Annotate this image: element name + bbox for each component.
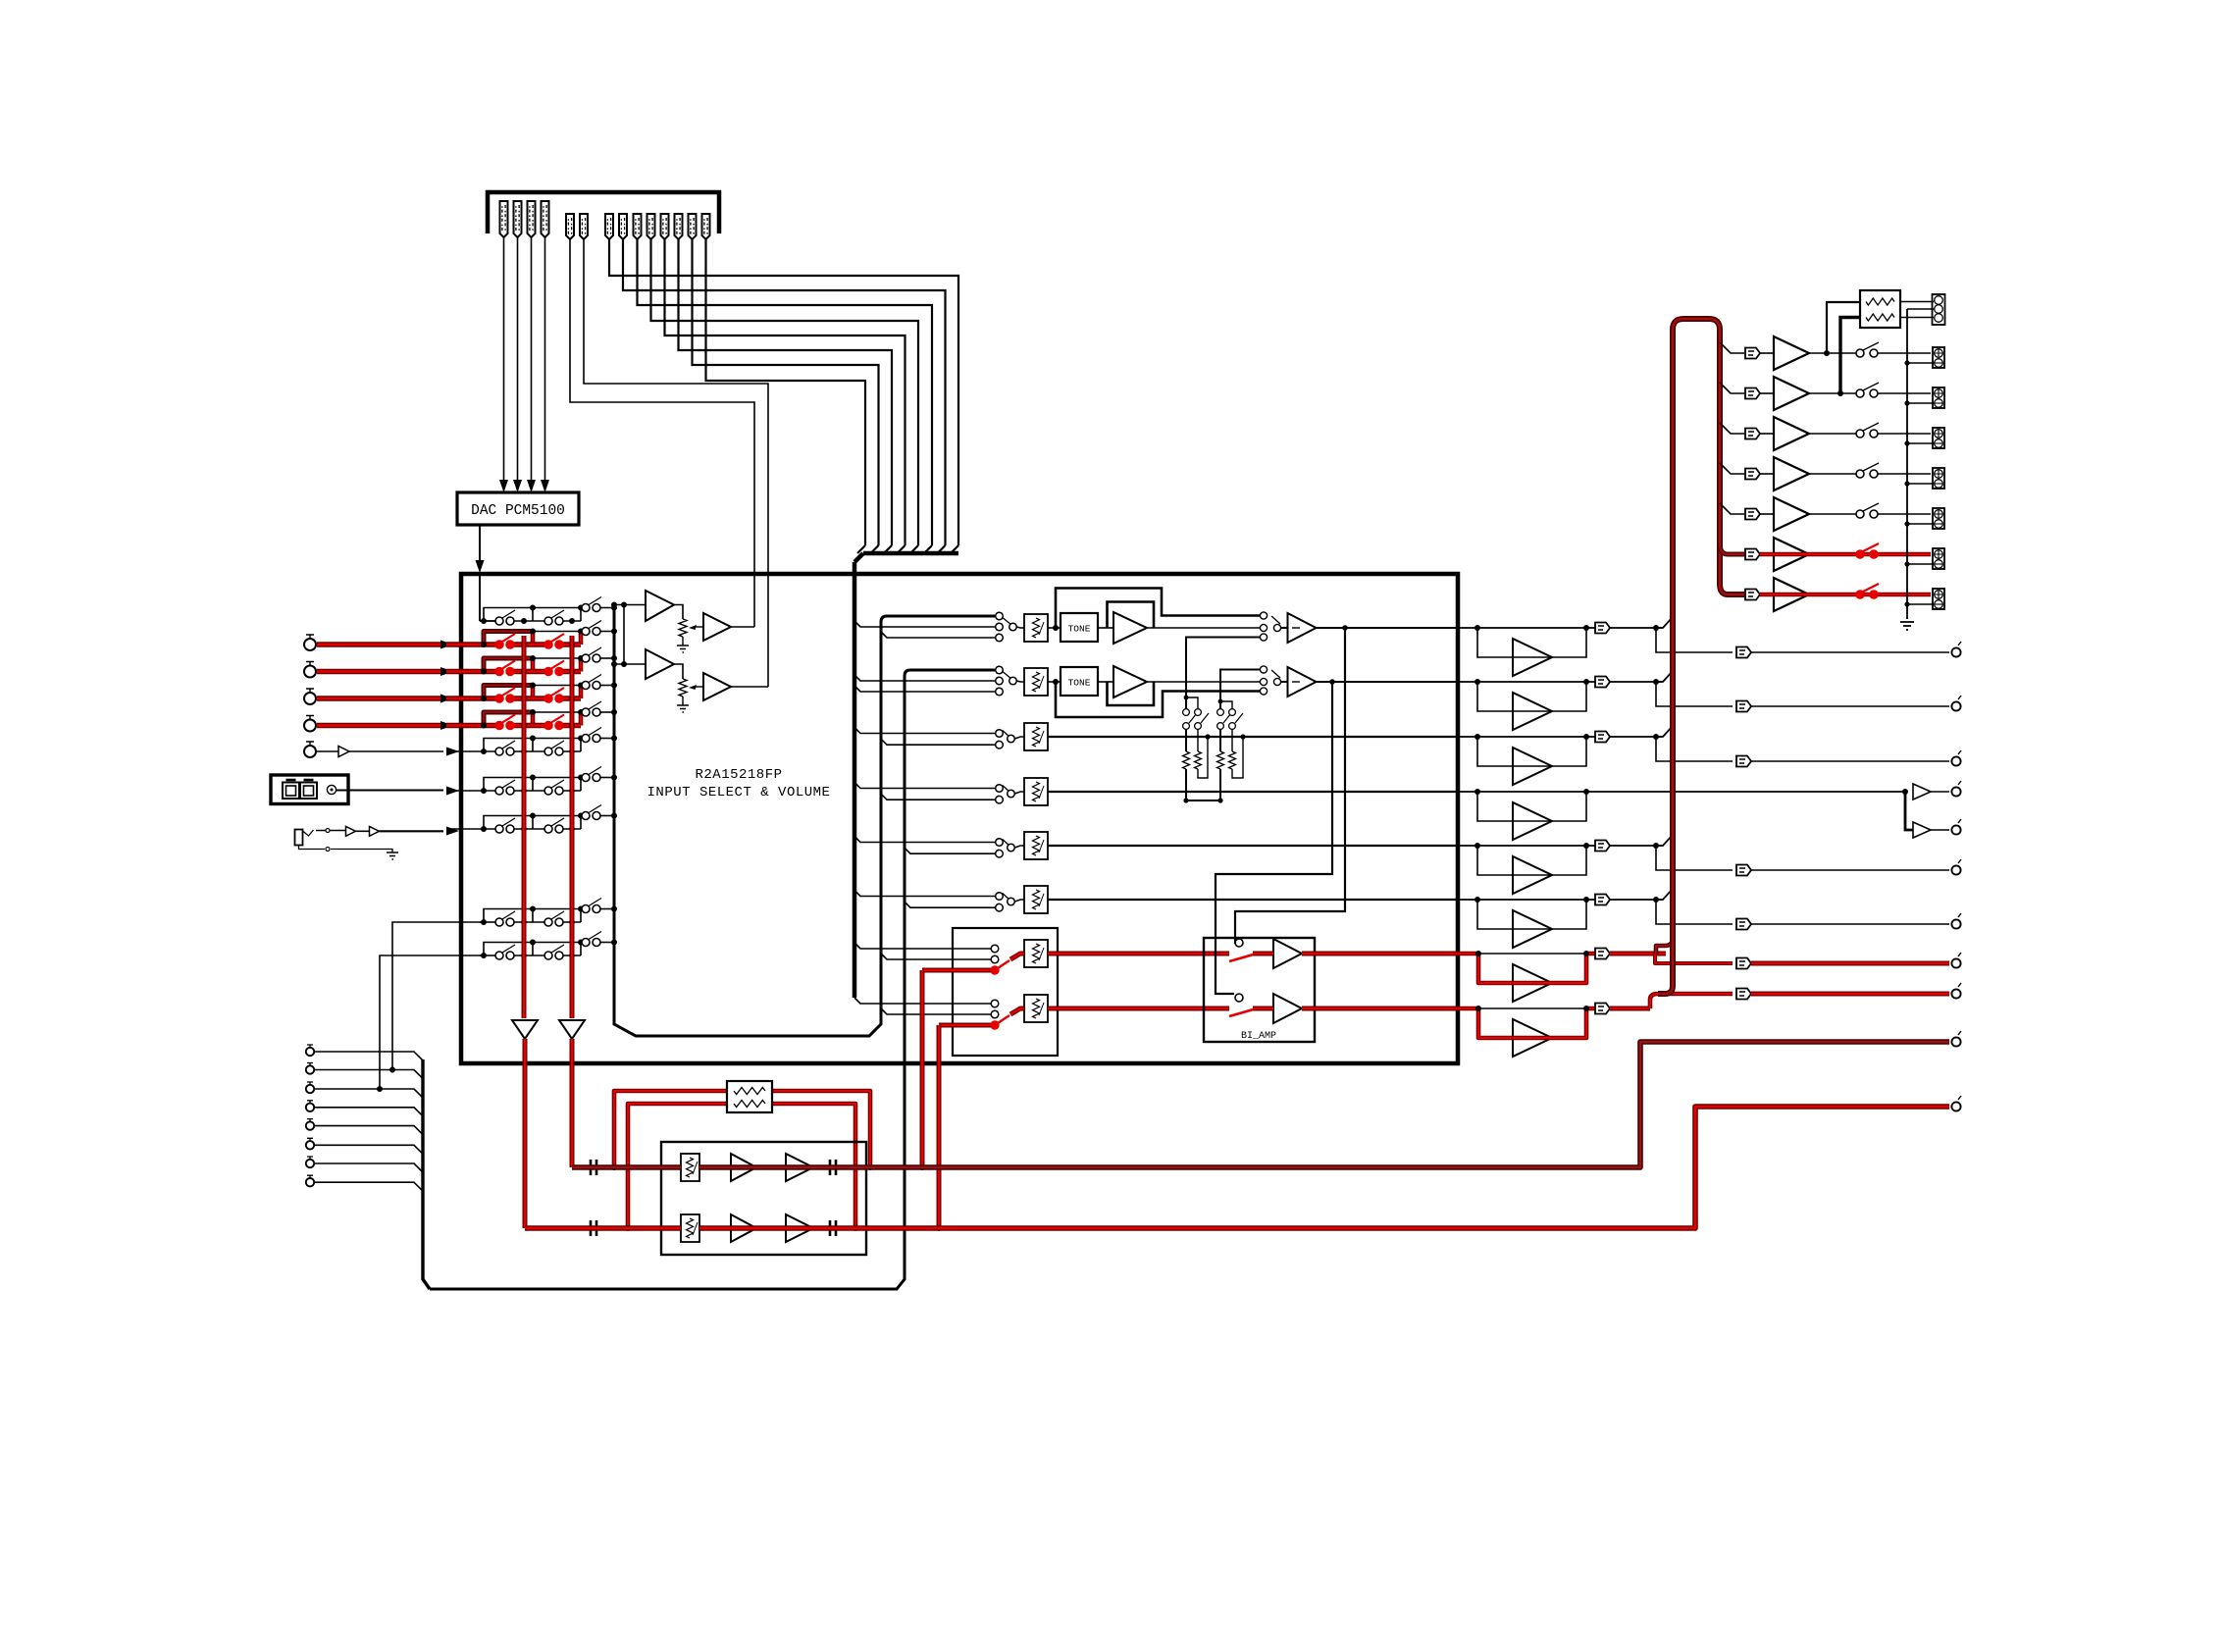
wire SBR preout [1650,994,1733,1008]
attenuator box rec A [1024,940,1048,967]
lever biamp A [1229,954,1257,961]
wire row 940 seg2 [514,921,544,923]
wire row 806 stair [484,778,533,792]
switch row 940 col2 [544,911,564,926]
wire DAC signal 4 [544,237,546,480]
lever vol 3 [1003,731,1009,737]
coupling marks right y1190 [830,1160,836,1175]
contact vol 6 common [1008,898,1015,905]
wire row 657 seg3 [561,642,581,646]
wire row 766 upper [533,738,586,740]
wire row 712 upper2 [600,685,614,687]
amp biamp UA [1273,939,1302,968]
wire row 712 drop2 [579,686,584,699]
bus vertical aux [614,604,995,1036]
connector pin bottom 8 [306,1175,314,1186]
wire post row 751 main [1458,736,1662,738]
wire bottom pin 4 [314,1108,423,1116]
wire gnd stub 4 [1907,483,1934,485]
wire vol feed lower 2 [854,686,995,692]
wire input red 3 [317,696,443,700]
lever rec B [998,1015,1009,1023]
wire phones gnd [299,846,393,853]
bus merge diagonal [854,553,863,562]
wire amp1 out [1809,352,1856,354]
junction row 845 bus1 [521,826,527,832]
wire DAC signal 3 [531,237,533,480]
wire row 806 seg2 [514,790,544,792]
coupling marks right y1252 [830,1220,836,1236]
amp tone U5 [1113,612,1147,644]
contact biamp A [1235,939,1243,947]
wire CH7 route [693,239,879,545]
terminal spk sys [1933,294,1945,325]
wire vol feed lower 1 [881,632,995,638]
wire row 684.5 stair [484,658,533,672]
tag red 1028 [1595,1004,1610,1014]
lever vol 1 [1003,618,1010,625]
resistor RL2 [1866,314,1894,321]
switch row 845 col1 [495,818,515,833]
output jack 917 [1951,913,1961,929]
amp2 feedback loop [1108,682,1155,705]
wire tape row B [377,955,484,1092]
svg-text:TONE: TONE [1068,678,1091,689]
wire gnd stub 3 [1907,442,1934,444]
wire loop top [614,1091,870,1167]
wire vol feed upper 6 [854,891,995,897]
junction row 845 c [530,813,584,819]
svg-text:INPUT SELECT & VOLUME: INPUT SELECT & VOLUME [647,785,831,800]
wire opamp1 out [674,605,683,620]
lever vol 4 [1003,786,1009,792]
junction row 739.5 bus2 [569,723,575,729]
wire row 657 stair [484,632,533,645]
contact biamp B [1235,994,1243,1002]
wire amp4 in [1760,473,1774,475]
wire row 766 stair [484,739,533,752]
junction loop 1 [611,1164,617,1170]
wire bundle join 751 [1656,727,1672,737]
wire gnd stub 5 [1907,523,1934,525]
input jack RCA 1 [304,635,316,650]
wire tone amp link 1 [1098,627,1113,629]
arrowhead aux [446,748,459,756]
junction post 862 b [1583,843,1589,849]
ground phones [387,852,398,859]
junction row 633 bus1 [521,618,527,624]
contact vol 3 common [1008,735,1015,743]
wire bottom pin 3 [314,1089,423,1098]
op-amp U3A [646,591,674,621]
output jack 862 [1951,859,1961,875]
connector pin bottom 2 [306,1063,314,1074]
arrowhead DAC 4 [541,480,549,492]
wire row 739.5 seg3 [561,723,581,728]
wire row 633 seg2 [514,620,544,622]
wire RL in2 [1840,318,1860,394]
amp tone U6 [1113,666,1147,697]
wire post row 807 main [1458,791,1905,793]
wire bottom pin 7 [314,1163,423,1172]
wire tone link 2 [1048,681,1061,683]
wire CH2 route [623,239,946,545]
wire aux input [317,750,443,752]
wire row 940 stair [484,909,533,923]
tag SBL preout [1736,958,1751,969]
tag preout 751 [1736,756,1751,767]
junction row 739.5 c [530,709,584,715]
phones switch hook [303,830,314,836]
wire row 633 seg1 [480,620,495,622]
wire preout 751 b [1751,760,1949,762]
label INPUT SELECT VOLUME [647,785,831,800]
junction row 940 bus3 [611,906,617,912]
connector flag EX_DAC_1 [500,201,508,237]
wire opamp3 input [614,663,646,665]
contact rec B red [991,1021,999,1029]
wire row 739.5 upper2 [600,711,614,713]
wire row 940 upper [533,908,586,910]
switch row 940 col3 [582,899,601,913]
wire row 684.5 upper [533,657,586,659]
junction hp [1902,789,1908,795]
wire preout 917 b [1751,923,1949,925]
wire amp5 stub [1720,503,1744,514]
wire amp3 in [1760,433,1774,435]
wire preout 917 [1656,900,1733,924]
wire row 739.5 upper [533,711,586,713]
connector flag CH9 [689,214,697,239]
pot arrow 2 [689,685,703,690]
tag preout 862 [1736,865,1751,876]
switch row 845 col3 [582,805,601,820]
junction row 940 a [481,919,487,925]
op-amp U4A [646,649,674,679]
arrowhead DAC 2 [513,480,522,492]
contact vol 1 common [1009,623,1017,631]
wire row 712 drop [531,686,536,699]
wire rec feed lower B [881,1008,991,1014]
switch row 766 col3 [582,728,601,743]
junction row 712 c [530,683,584,689]
wire row 633 stair [484,608,533,622]
wire bottom pin 8 [314,1182,423,1191]
wire preout 862 [1656,846,1733,870]
wire DAC signal 1 [503,237,505,480]
wire row 712 seg1 [446,696,495,700]
bus speaker ground [1906,309,1908,619]
switch row 657 col2 [544,634,564,648]
contact vol 2 mid [996,677,1004,685]
junction loop 2 [625,1225,631,1231]
tag row 640 [1595,623,1610,634]
arrowhead input 2 [440,667,453,676]
junction row 974 bus3 [611,940,617,946]
junction row 940 bus2 [569,919,575,925]
wire vol common 5 [1015,846,1025,848]
wire opamp1 input [614,604,646,606]
switch row 657 col1 [495,634,515,648]
wire hp R out [1931,829,1949,831]
connector flag EX_DAC_4 [542,201,549,237]
wire amp2 out [1809,392,1856,394]
junction bypass 2 [1053,679,1059,685]
junction row 712 bus3 [611,683,617,689]
junction row 974 bus1 [521,953,527,958]
wire row 633 drop2 [580,608,582,622]
terminal spk 7 [1933,589,1944,609]
wire vol common 6 [1015,900,1025,902]
amp rec1 dark [731,1154,756,1181]
attenuator box rec B [1024,995,1048,1022]
wire CH2 bus join [938,545,946,553]
wire CH5 bus join [898,545,906,553]
phones contact [326,829,330,833]
attenuator box rec line dark [681,1154,699,1181]
wire rec tap B [936,1025,942,1231]
terminal spk 5 [1933,508,1944,529]
amp1 feedback loop [1108,602,1155,629]
pot R vol1 [679,619,687,645]
resistor box RL [1860,290,1900,328]
wire vol out 5 [1048,845,1458,847]
attenuator box vol 2 [1024,668,1048,696]
junction row 806 bus2 [569,788,575,794]
wire rec feed upper A [854,943,991,949]
amp post U8 [1288,667,1317,697]
connector pin bottom 5 [306,1119,314,1130]
wire CH4 bus join [910,545,918,553]
output jack SBL [1951,953,1961,968]
contact phones gnd [326,848,330,852]
wire vol out 3 [1048,736,1458,738]
amp bypass red 1028 [1513,1019,1552,1057]
wire vol feed lower 6 [905,902,995,907]
wire amp1 stub [1720,342,1744,353]
arrowhead input 3 [440,695,453,703]
switch row 739.5 col1 [495,715,515,730]
tag amp7 [1745,590,1760,600]
bus bottom horizontal [430,670,995,1289]
output jack 695 [1951,696,1961,711]
wire row 739.5 seg1 [446,723,495,728]
wire amp1 term [1878,352,1931,354]
wire RL in1 [1827,302,1860,353]
svg-text:R2A15218FP: R2A15218FP [695,767,782,783]
wire red dip 972 [1458,954,1595,983]
amp U15 [1774,497,1809,531]
junction row 806 a [481,788,487,794]
optical display segments [283,780,317,799]
wire row 766 seg3 [561,750,581,752]
wire SBR preout2 [1751,992,1949,997]
connector pin bottom 7 [306,1157,314,1167]
wire AIN1R [584,239,768,687]
tag amp5 [1745,509,1760,520]
wire row 766 seg2 [514,750,544,752]
wire gnd stub 6 [1907,563,1934,565]
wire row 684.5 upper2 [600,657,614,659]
wire amp1 in [1760,352,1774,354]
wire biamp feed A [1235,625,1348,944]
wire amp2 term [1878,392,1931,394]
wire amp3 stub [1720,423,1744,434]
bypass straight red 1028 [1478,1007,1586,1009]
wire SBL preout [1655,954,1733,963]
switch row 766 col2 [544,741,564,755]
junction rec lines [611,1164,631,1231]
input jack RCA 4 [304,716,316,732]
junction row 940 c [530,906,584,912]
svg-text:TONE: TONE [1068,624,1091,635]
wire amp4 out [1809,473,1856,475]
BI_AMP box [1204,938,1315,1042]
wire vol common 4 [1015,792,1025,794]
label TONE 1 [1068,624,1091,635]
wire biamp out A [1253,952,1458,956]
wire fb bottom tie [1183,798,1222,802]
amp bypass row 917 [1513,910,1552,948]
arrowhead phones [446,827,459,836]
label BI_AMP [1241,1031,1276,1042]
wire CH1 bus join [951,545,958,553]
attenuator box vol 4 [1024,778,1048,805]
switch row 712 col3 [582,675,601,690]
contact rec A upper [991,945,999,953]
wire CH1 route [609,239,958,545]
wire row 974 seg3 [561,955,581,956]
wire row 657 drop [531,632,536,645]
wire preout 751 [1656,737,1733,761]
wire row 940 upper2 [600,908,614,910]
switch row 974 col2 [544,945,564,959]
junction post 807 a [1475,789,1480,795]
switch row 633 col3 [582,597,601,612]
attenuator box vol 3 [1024,723,1048,750]
wire row 633 upper2 [600,607,614,609]
amp U12 [1774,377,1809,410]
wire rec feed upper B [854,998,991,1004]
junction row 633 c [530,605,584,611]
wire amp3 out [1809,433,1856,435]
wire rec tap A [919,970,925,1170]
wire row 806 upper [533,777,586,779]
wire REC line bright [525,1107,1949,1228]
wire amp5 in [1760,513,1774,515]
lever biamp B [1229,1008,1257,1016]
amp U17 [1774,578,1809,611]
switch row 684.5 col3 [582,647,601,662]
input jack RCA 3 [304,689,316,704]
wire row 845 upper [533,815,586,817]
wire amp2 stub [1720,383,1744,393]
connector flag EX_DAC_3 [528,201,536,237]
output jack 640 [1951,642,1961,657]
tag amp6 [1745,549,1760,560]
switch spk 6 [1856,543,1879,558]
contact vol 2 upper [996,666,1004,674]
switch row 684.5 col1 [495,661,515,676]
tag amp3 [1745,429,1760,439]
wire SBL leg jog [1656,938,1673,954]
label R2A15218FP [695,767,782,783]
wire RL out1 [1900,301,1934,303]
lever vol 6 [1003,894,1009,900]
junction row 633 bus3 [611,605,617,611]
junction post 917 b [1583,897,1589,903]
junction gnd 7 [1904,601,1909,606]
connector J1 bracket [488,192,719,233]
wire preout 640 [1656,628,1733,652]
buffer U phones 1 [346,827,356,837]
wire CH6 bus join [884,545,892,553]
terminal spk 2 [1933,387,1944,408]
record select box [953,928,1058,1056]
wire preout 695 b [1751,705,1949,707]
junction red 972 b [1583,951,1589,956]
wire vol out 6 [1048,899,1458,901]
contact vol 5 upper [996,839,1004,847]
junction gnd 5 [1904,521,1909,526]
junction row 845 a [481,826,487,832]
contact rec A mid [991,955,999,963]
switch spk 1 [1856,342,1879,357]
wire CH8 route [706,239,866,545]
junction opamp in a [611,602,627,608]
junction row 974 a [481,953,487,958]
output jack zone B [1951,1096,1961,1111]
connector flag CH8 [675,214,683,239]
tag row 917 [1595,895,1610,905]
connector flag CH7 [661,214,669,239]
junction row 633 a [481,618,487,624]
junction row 657 c [530,629,584,635]
wire row 684.5 seg2 [514,669,544,674]
buffer U aux [338,747,349,757]
junction post 640 b [1583,625,1589,631]
arrowhead DAC 3 [527,480,536,492]
junction post 917 c [1653,897,1659,903]
wire CH6 route [679,239,893,545]
block main board outline [461,574,1458,1063]
amp U13 [1774,417,1809,450]
wire vol common 2 [1017,681,1025,682]
wire REC A down [523,1039,528,1228]
wire tone out 1 [1147,627,1260,629]
bus REC A vertical [522,636,527,1018]
junction post 640 a [1475,625,1480,631]
switch fb col2 [1195,709,1209,730]
bypass loop row 917 [1477,900,1586,929]
wire optical [336,790,443,792]
tag SBR preout [1736,989,1751,1000]
attenuator box vol 6 [1024,886,1048,913]
connector pin bottom 6 [306,1138,314,1149]
wire row 712 upper [533,685,586,687]
amp biamp UB [1273,994,1302,1023]
bypass loop row 807 [1477,792,1586,821]
rec amp outer box [661,1142,866,1255]
wire row 657 seg2 [514,642,544,646]
wire row 974 seg2 [514,955,544,956]
wire CH5 route [665,239,906,545]
connector flag EX_DAC_2 [514,201,522,237]
ground pot 2 [677,705,689,712]
output jack zone A [1951,1031,1961,1047]
arrowhead input 4 [440,721,453,730]
terminal spk 6 [1933,548,1944,569]
